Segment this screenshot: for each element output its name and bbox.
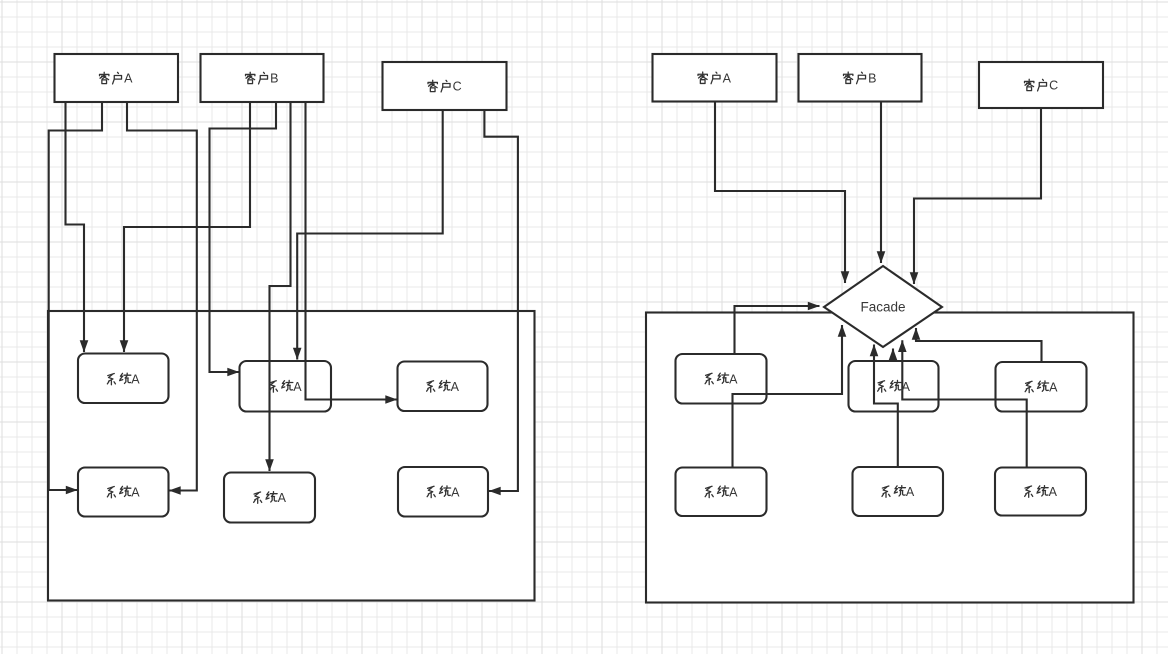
svg-text:A: A — [131, 373, 140, 387]
right system box R4 — [676, 468, 767, 517]
label left 客户A — [100, 72, 134, 86]
svg-text:A: A — [729, 485, 738, 499]
svg-text:A: A — [124, 72, 133, 86]
wire L5 clientB -> S2 left — [210, 102, 277, 372]
left system box S1 — [78, 354, 169, 404]
left system box S3 — [398, 362, 488, 412]
wire L2 clientA -> S4 left — [49, 102, 102, 490]
label 系统A R6 — [1025, 485, 1058, 499]
label 系统A S2 — [269, 380, 302, 394]
wire L1 clientA -> S1 — [66, 102, 85, 352]
label 系统A S4 — [107, 486, 140, 500]
wire clientB right -> facade — [880, 102, 882, 264]
wire R3 top -> facade lower-right — [916, 328, 1042, 362]
svg-text:C: C — [453, 80, 462, 94]
wire R2 top -> facade bottom — [892, 349, 894, 362]
svg-text:A: A — [906, 485, 915, 499]
left system box S4 — [78, 468, 169, 517]
wire L4 clientB -> S1 — [124, 102, 250, 352]
left system box S2 — [240, 361, 332, 412]
svg-text:C: C — [1049, 79, 1058, 93]
right client box 客户C — [979, 62, 1103, 108]
right system box R3 — [996, 362, 1087, 412]
label right 客户C — [1025, 79, 1059, 93]
svg-text:A: A — [723, 71, 732, 85]
wire L8 clientC -> S2 top — [297, 110, 443, 360]
svg-text:A: A — [278, 491, 287, 505]
svg-text:A: A — [902, 380, 911, 394]
svg-text:A: A — [131, 486, 140, 500]
right system box R6 — [995, 468, 1086, 516]
left system box S5 — [224, 473, 315, 523]
left subsystem container — [48, 311, 535, 601]
wire R6 -> facade bottom — [902, 340, 1026, 467]
wire L3 clientA -> S4 right — [127, 102, 197, 491]
svg-text:B: B — [868, 71, 876, 85]
wire R1 top -> facade left vertex — [735, 306, 820, 354]
label 系统A R2 — [878, 380, 911, 394]
label left 客户B — [246, 72, 279, 86]
svg-text:A: A — [1049, 485, 1058, 499]
left system box S6 — [398, 467, 488, 517]
label 系统A S1 — [107, 373, 140, 387]
svg-text:A: A — [293, 380, 302, 394]
wire clientA right -> facade — [715, 102, 845, 284]
label right 客户A — [698, 71, 732, 85]
svg-text:A: A — [451, 380, 460, 394]
label 系统A S3 — [427, 380, 460, 394]
wire R5 -> facade bottom — [874, 345, 898, 468]
wire R4 -> facade lower-left — [733, 325, 843, 468]
right system box R5 — [853, 467, 944, 516]
left client box 客户C — [383, 62, 507, 110]
left client box 客户B — [201, 54, 324, 102]
svg-text:Facade: Facade — [860, 300, 905, 315]
right subsystem container — [646, 313, 1134, 603]
svg-text:A: A — [451, 485, 460, 499]
label right 客户B — [844, 71, 877, 85]
label 系统A S5 — [254, 491, 287, 505]
svg-text:A: A — [1049, 380, 1058, 394]
label 系统A R4 — [705, 485, 738, 499]
wire L6 clientB -> S5 — [270, 102, 291, 471]
left client box 客户A — [55, 54, 179, 102]
right system box R2 — [849, 361, 939, 412]
label 系统A R5 — [882, 485, 915, 499]
svg-text:B: B — [270, 72, 278, 86]
wire L7 clientB -> S3 left — [306, 102, 398, 400]
facade diamond — [824, 266, 942, 347]
wire L9 clientC -> S6 right — [484, 110, 518, 491]
svg-text:A: A — [729, 372, 738, 386]
label left 客户C — [428, 80, 462, 94]
label 系统A R1 — [705, 372, 738, 386]
right client box 客户B — [799, 54, 922, 102]
label 系统A S6 — [427, 485, 460, 499]
right client box 客户A — [653, 54, 777, 102]
right system box R1 — [676, 354, 767, 404]
wire clientC right -> facade — [914, 108, 1041, 284]
label 系统A R3 — [1025, 380, 1058, 394]
